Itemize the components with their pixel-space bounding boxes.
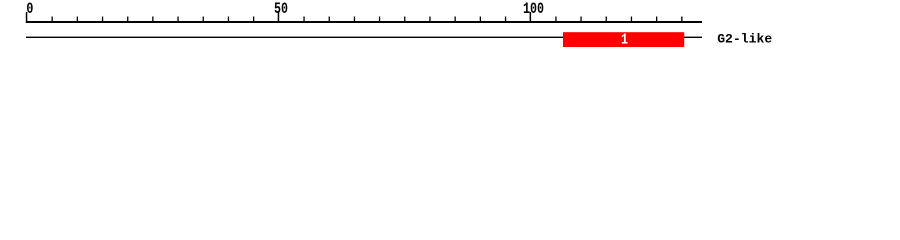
protein backbone line [26, 37, 702, 38]
svg-text:G2-like: G2-like [717, 32, 772, 47]
ruler label 100 [523, 2, 544, 19]
major tick 50 [278, 12, 280, 23]
minor ticks every 5 residues [52, 17, 683, 24]
svg-text:100: 100 [523, 2, 544, 19]
svg-text:50: 50 [274, 2, 288, 19]
domain box 1 (G2-like) [563, 32, 684, 47]
background [0, 0, 900, 58]
ruler label 50 [274, 2, 288, 19]
major tick 0 [26, 12, 28, 23]
svg-text:1: 1 [621, 31, 628, 48]
domain name label G2-like [717, 32, 772, 47]
ruler label 0 [26, 2, 33, 19]
ruler axis line [26, 21, 702, 23]
domain number 1 [621, 31, 628, 48]
major tick 100 [530, 12, 532, 23]
svg-text:0: 0 [26, 2, 33, 19]
